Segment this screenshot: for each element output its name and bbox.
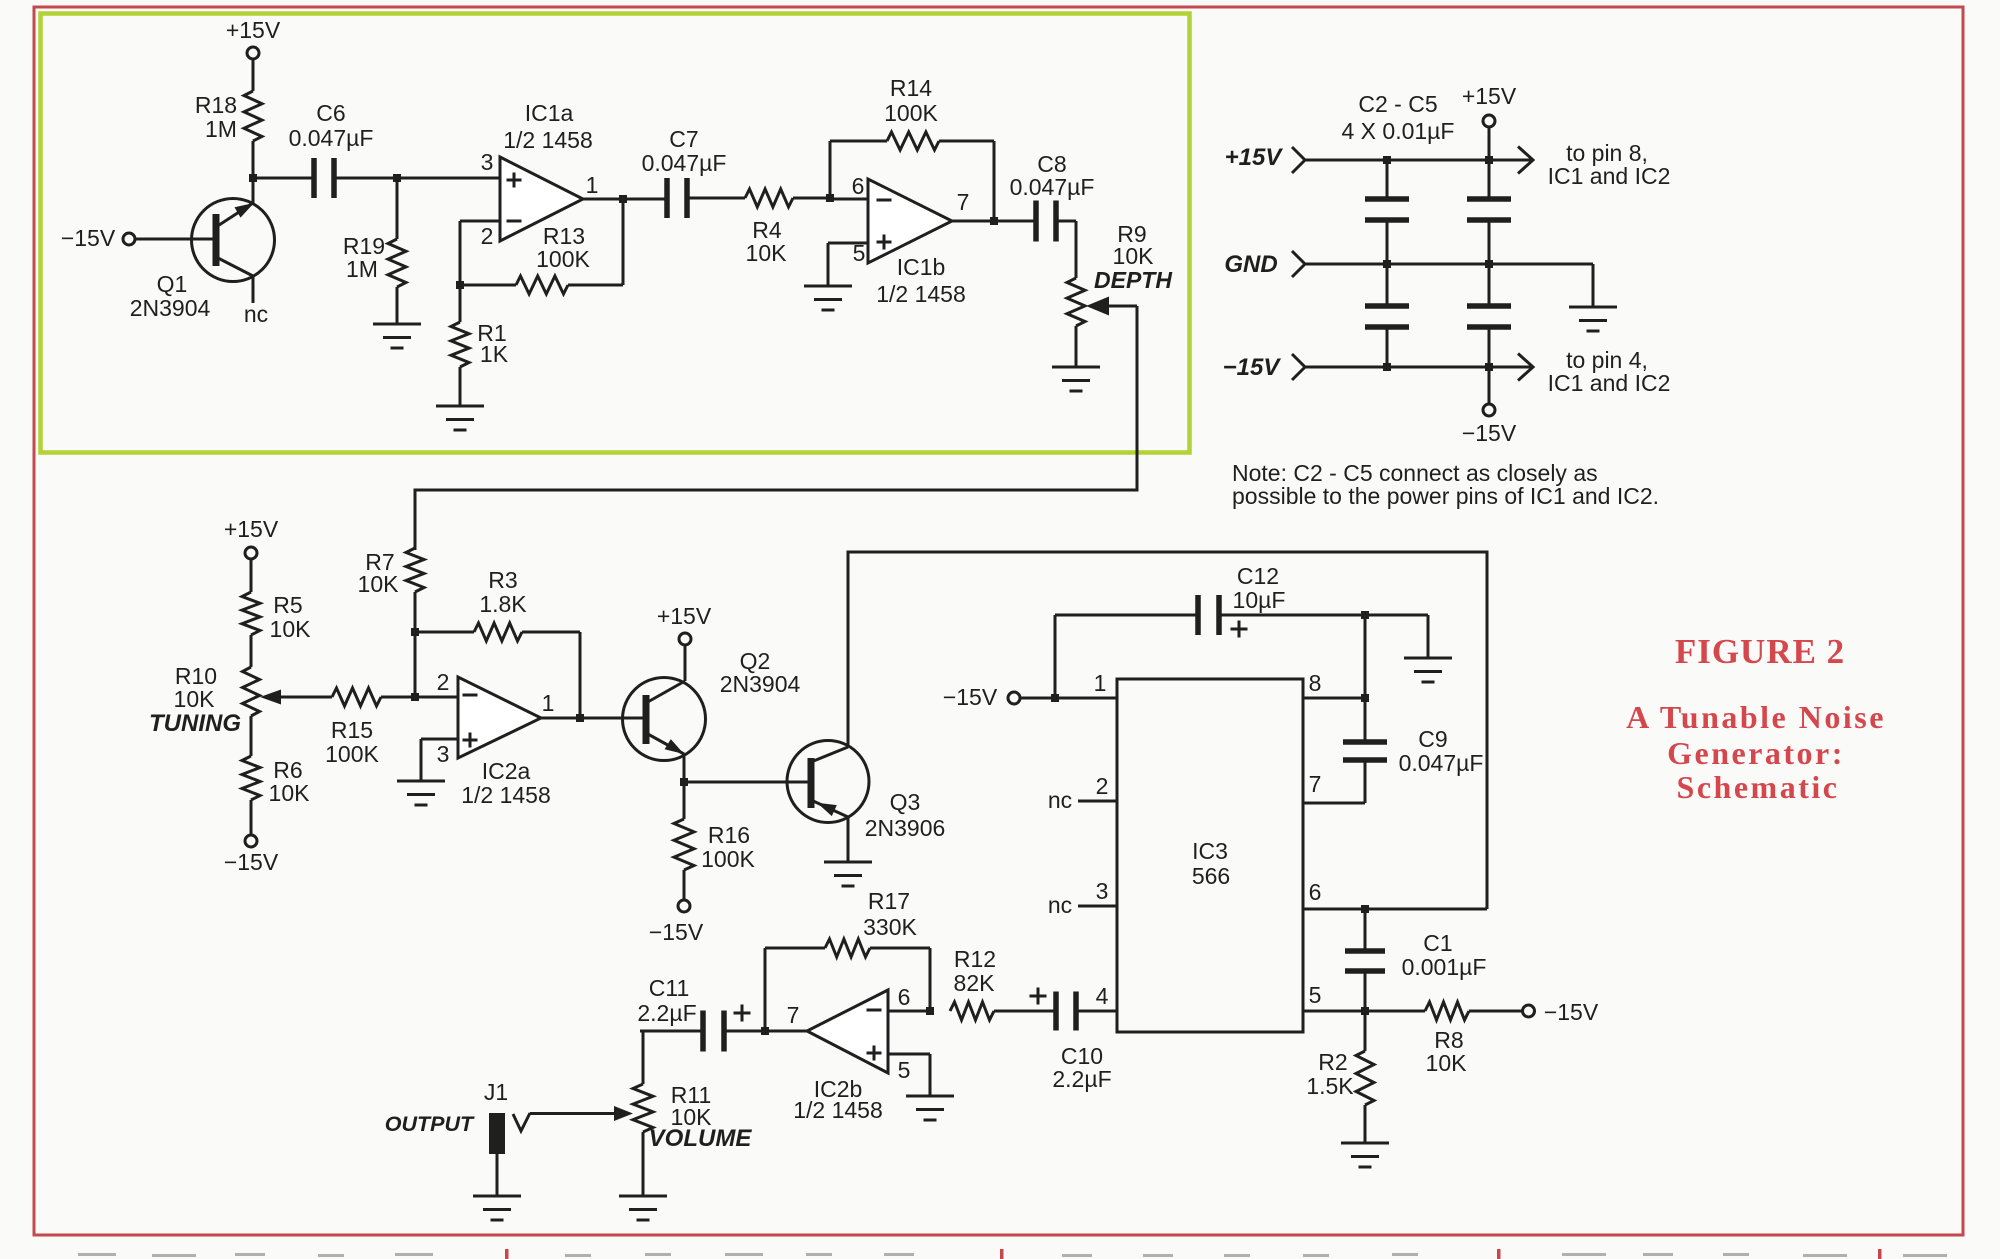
ground below IC2b pin5 [906, 1096, 954, 1120]
wire node J to Q3 base [684, 781, 811, 784]
transistor Q1 2N3904 [192, 178, 275, 282]
svg-text:−15V: −15V [1462, 420, 1517, 446]
svg-text:10K: 10K [174, 686, 216, 712]
svg-text:2.2µF: 2.2µF [637, 1000, 696, 1026]
svg-text:R3: R3 [488, 567, 517, 593]
svg-text:5: 5 [1309, 982, 1322, 1008]
transistor Q3 2N3906 [787, 741, 869, 823]
capacitor C10 [1030, 988, 1112, 1093]
label OUTPUT [385, 1112, 475, 1136]
resistor R15 [260, 688, 415, 767]
svg-text:0.001µF: 0.001µF [1402, 954, 1487, 980]
svg-text:10K: 10K [1426, 1050, 1468, 1076]
junction −15V rail / C5 [1485, 363, 1493, 371]
svg-text:IC3: IC3 [1192, 838, 1228, 864]
junction −15V rail / C3 [1383, 363, 1391, 371]
svg-text:C9: C9 [1418, 726, 1447, 752]
svg-text:2N3904: 2N3904 [720, 671, 801, 697]
wire R13 to IC1a output [622, 198, 625, 285]
svg-text:R17: R17 [868, 888, 910, 914]
svg-text:1/2 1458: 1/2 1458 [503, 127, 593, 153]
node D junction (IC1a output) [583, 195, 666, 203]
op-amp IC2a 1/2 1458 [437, 669, 555, 808]
resistor R5 [242, 592, 311, 642]
capacitor C9 [1343, 698, 1483, 803]
svg-text:R12: R12 [954, 946, 996, 972]
wire R10 to R6 [250, 716, 253, 756]
svg-text:7: 7 [957, 189, 970, 215]
svg-text:100K: 100K [884, 100, 938, 126]
resistor R14 (feedback) [830, 75, 994, 198]
wire node B to IC1a noninverting input [397, 177, 500, 180]
svg-text:C1: C1 [1423, 930, 1452, 956]
svg-text:10K: 10K [270, 616, 312, 642]
node J junction (Q2 emitter / R16 / Q3 base) [680, 778, 688, 786]
transistor Q2 2N3904 [623, 646, 706, 783]
svg-text:−15V: −15V [1223, 354, 1282, 381]
label Q1 [130, 271, 211, 321]
svg-text:0.047µF: 0.047µF [289, 125, 374, 151]
wire IC1b noninverting input to ground [828, 243, 868, 286]
svg-text:3: 3 [437, 741, 450, 767]
resistor R1 [451, 285, 509, 367]
svg-text:+15V: +15V [226, 17, 281, 43]
+15V rail input chevron [1225, 144, 1305, 173]
svg-text:10K: 10K [269, 780, 311, 806]
node E junction (R4 / R14 / IC1b pin6) [826, 194, 834, 202]
svg-text:R14: R14 [890, 75, 932, 101]
node K junction (pin1 / C12) [1051, 694, 1059, 702]
pin 3 nc [1048, 878, 1117, 918]
resistor R6 [242, 756, 310, 806]
ground below J1 [473, 1154, 521, 1220]
svg-text:10K: 10K [358, 571, 400, 597]
capacitor C4 (bypass +15V col 2) [1467, 160, 1511, 264]
wire node H to IC2a pin2 [415, 696, 458, 699]
svg-text:1M: 1M [205, 116, 237, 142]
GND rail ground drop [1569, 264, 1617, 331]
ground below R1 [436, 367, 484, 430]
highlight box around noise-source stage (green) [41, 14, 1190, 453]
svg-text:10K: 10K [746, 240, 788, 266]
node H junction (R15 / IC2a pin2) [411, 693, 419, 701]
capacitor C5 (bypass −15V col 2) [1467, 264, 1511, 367]
label C2 - C5 [1342, 91, 1455, 144]
svg-text:+15V: +15V [657, 603, 712, 629]
svg-text:7: 7 [1309, 771, 1322, 797]
resistor R16 [674, 782, 756, 872]
svg-text:FIGURE 2: FIGURE 2 [1675, 632, 1845, 671]
node G junction (R7 / R3) [411, 628, 419, 636]
wire R14 to IC1b output node [993, 141, 996, 221]
wire IC1a inverting input loop [460, 221, 500, 285]
label to pin 4 IC1 and IC2 [1548, 347, 1671, 396]
ground below R2 [1341, 1105, 1389, 1167]
input terminal −15V (IC3 pin1) [943, 684, 1117, 710]
pin 6 wire [1303, 879, 1487, 909]
R11 wiper arrow [530, 1106, 633, 1121]
IC3 566 [1117, 679, 1303, 1032]
svg-text:+15V: +15V [1462, 83, 1517, 109]
svg-text:1: 1 [1094, 670, 1107, 696]
svg-text:R5: R5 [273, 592, 302, 618]
svg-text:6: 6 [898, 984, 911, 1010]
svg-text:8: 8 [1309, 670, 1322, 696]
svg-text:nc: nc [244, 301, 268, 327]
svg-text:J1: J1 [484, 1079, 508, 1105]
svg-text:+15V: +15V [224, 516, 279, 542]
capacitor C2 (bypass +15V col 1) [1365, 160, 1409, 264]
power terminal +15V (top of R18) [226, 17, 281, 91]
svg-text:4: 4 [1096, 983, 1109, 1009]
−15V rail input chevron [1223, 354, 1305, 381]
svg-text:7: 7 [787, 1002, 800, 1028]
svg-text:−15V: −15V [61, 225, 116, 251]
capacitor C3 (bypass −15V col 1) [1365, 264, 1409, 367]
svg-text:nc: nc [1048, 787, 1072, 813]
pin 4 wire [1076, 983, 1117, 1011]
svg-text:possible to the power pins of: possible to the power pins of IC1 and IC… [1232, 483, 1659, 509]
node A junction (Q1 emitter / C6) [249, 174, 257, 182]
wire R5 to R10 [250, 635, 253, 667]
svg-text:2N3906: 2N3906 [865, 815, 946, 841]
node C junction (R13 / R1 / IC1a pin2) [456, 281, 464, 289]
svg-text:100K: 100K [701, 846, 755, 872]
wire IC2a noninverting input to ground [421, 739, 458, 781]
svg-text:1K: 1K [480, 341, 509, 367]
svg-text:−15V: −15V [943, 684, 998, 710]
capacitor C12 [1055, 563, 1365, 698]
node O junction (pin5 / C1 / R2 / R8) [1361, 1007, 1369, 1015]
ground below R11 [619, 1132, 667, 1220]
capacitor C8 [1010, 151, 1095, 242]
svg-text:C7: C7 [669, 126, 698, 152]
svg-text:2: 2 [481, 223, 494, 249]
svg-text:1/2 1458: 1/2 1458 [876, 281, 966, 307]
svg-text:R2: R2 [1318, 1049, 1347, 1075]
junction GND rail / C4C5 [1485, 260, 1493, 268]
svg-text:1: 1 [586, 172, 599, 198]
power terminal +15V (top of R5) [224, 516, 279, 592]
svg-text:6: 6 [852, 173, 865, 199]
svg-text:−15V: −15V [649, 919, 704, 945]
svg-text:TUNING: TUNING [149, 710, 241, 737]
resistor R4 [745, 189, 830, 266]
capacitor C11 [637, 975, 750, 1052]
Q1 collector lead (nc) [216, 257, 268, 327]
svg-text:0.047µF: 0.047µF [1399, 750, 1484, 776]
svg-text:IC1a: IC1a [525, 100, 574, 126]
pin 2 nc [1048, 773, 1117, 813]
svg-text:DEPTH: DEPTH [1094, 267, 1172, 293]
svg-text:82K: 82K [954, 970, 996, 996]
svg-text:OUTPUT: OUTPUT [385, 1112, 475, 1136]
wire C8 to potentiometer R9 [1075, 221, 1078, 278]
svg-text:R18: R18 [195, 92, 237, 118]
svg-text:1/2 1458: 1/2 1458 [793, 1097, 883, 1123]
wire Q3 collector loop to IC3 pin6 [848, 552, 1487, 909]
svg-text:5: 5 [898, 1057, 911, 1083]
resistor R7 [358, 548, 424, 597]
op-amp IC1a 1/2 1458 [481, 100, 599, 249]
wire R7 to node G [414, 592, 417, 632]
resistor R2 [1306, 1011, 1374, 1105]
node B junction (C6 / R19 / IC1a pin3) [393, 174, 401, 182]
svg-text:100K: 100K [325, 741, 379, 767]
svg-text:10K: 10K [1113, 243, 1155, 269]
ground below R9 [1052, 326, 1100, 391]
wire node G down to IC2a inverting input [414, 632, 417, 697]
op-amp IC1b 1/2 1458 [852, 173, 970, 307]
svg-text:1/2 1458: 1/2 1458 [461, 782, 551, 808]
resistor R3 [415, 567, 580, 641]
potentiometer R10 10K TUNING [149, 663, 260, 737]
svg-text:Generator:: Generator: [1667, 735, 1845, 771]
power terminal −15V (bottom of R16) [649, 870, 704, 945]
svg-text:1: 1 [542, 690, 555, 716]
svg-text:Q1: Q1 [157, 271, 188, 297]
svg-text:1M: 1M [346, 256, 378, 282]
resistor R12 [950, 946, 1056, 1020]
node L junction (C12 / ground stub / pin8 drop) [1361, 611, 1369, 619]
cut-off text remnants at page bottom [78, 1249, 1947, 1259]
wire R9 wiper to R7 (modulation feed) [415, 306, 1137, 550]
node N junction (pin6 / C1) [1361, 905, 1369, 913]
junction +15V rail / C2 [1383, 156, 1391, 164]
pin 8 wire [1303, 670, 1365, 698]
svg-text:3: 3 [481, 149, 494, 175]
power terminal +15V (Q2 collector) [657, 603, 712, 645]
svg-text:Schematic: Schematic [1677, 769, 1840, 805]
svg-text:A Tunable Noise: A Tunable Noise [1626, 699, 1886, 735]
node I junction (IC2a output / R3 / Q2 base) [541, 714, 646, 722]
+15V rail arrow to pin 8 [1518, 147, 1533, 174]
svg-text:1.8K: 1.8K [479, 591, 527, 617]
note text [1232, 460, 1659, 509]
svg-text:IC1 and IC2: IC1 and IC2 [1548, 370, 1671, 396]
svg-text:330K: 330K [863, 914, 917, 940]
svg-text:VOLUME: VOLUME [649, 1125, 753, 1152]
svg-text:566: 566 [1192, 863, 1230, 889]
resistor R13 (feedback) [460, 223, 623, 294]
svg-text:6: 6 [1309, 879, 1322, 905]
svg-text:4 X 0.01µF: 4 X 0.01µF [1342, 118, 1455, 144]
svg-text:2: 2 [437, 669, 450, 695]
svg-text:C6: C6 [316, 100, 345, 126]
svg-text:+15V: +15V [1225, 144, 1284, 171]
potentiometer R11 10K VOLUME [633, 1082, 752, 1152]
wire node L down to pin8 [1364, 615, 1367, 698]
figure caption [1626, 632, 1886, 805]
svg-text:GND: GND [1224, 251, 1277, 278]
svg-text:R16: R16 [708, 822, 750, 848]
power terminal −15V (bottom of bypass network) [1462, 367, 1517, 446]
node F junction (IC1b output / C8) [952, 217, 1036, 225]
wire R3 to IC2a output [579, 632, 582, 718]
svg-text:R15: R15 [331, 717, 373, 743]
op-amp IC2b 1/2 1458 [787, 984, 911, 1123]
svg-text:100K: 100K [536, 246, 590, 272]
svg-text:1.5K: 1.5K [1306, 1073, 1354, 1099]
svg-text:2: 2 [1096, 773, 1109, 799]
svg-text:0.047µF: 0.047µF [1010, 174, 1095, 200]
svg-text:−15V: −15V [1544, 999, 1599, 1025]
svg-text:IC1 and IC2: IC1 and IC2 [1548, 163, 1671, 189]
−15V rail wire [1305, 366, 1533, 369]
power terminal +15V (top of bypass network) [1462, 83, 1517, 160]
resistor R17 (feedback) [765, 888, 930, 1031]
power terminal −15V (bottom of R6) [224, 800, 279, 875]
ground below IC1b pin5 [804, 286, 852, 310]
svg-text:3: 3 [1096, 878, 1109, 904]
resistor R18 [195, 91, 262, 142]
pin 5 wire [1303, 982, 1425, 1011]
svg-text:C11: C11 [649, 975, 690, 1001]
junction GND rail / C2C3 [1383, 260, 1391, 268]
ground below IC2a pin3 [397, 781, 445, 805]
ground stub right of C12 [1365, 615, 1452, 682]
svg-text:C12: C12 [1237, 563, 1279, 589]
svg-text:−15V: −15V [224, 849, 279, 875]
−15V rail arrow to pin 4 [1518, 354, 1533, 381]
svg-text:2.2µF: 2.2µF [1052, 1066, 1111, 1092]
wire node P to IC2b inverting input [888, 1010, 930, 1013]
R9 wiper arrow [1086, 297, 1137, 316]
svg-text:0.047µF: 0.047µF [642, 150, 727, 176]
svg-text:C2 - C5: C2 - C5 [1358, 91, 1437, 117]
svg-text:IC2a: IC2a [482, 758, 531, 784]
svg-text:nc: nc [1048, 892, 1072, 918]
svg-text:2N3904: 2N3904 [130, 295, 211, 321]
junction +15V rail / C4 [1485, 156, 1493, 164]
ground below R19 [373, 287, 421, 348]
capacitor C1 [1345, 909, 1486, 1011]
wire node E to IC1b inverting input [830, 198, 868, 201]
label to pin 8 IC1 and IC2 [1548, 140, 1671, 189]
jack J1 [484, 1079, 530, 1154]
capacitor C7 [642, 126, 745, 218]
wire R18 bottom to node A [252, 141, 255, 178]
input terminal −15V (Q1 base) [61, 225, 216, 251]
GND rail wire [1305, 263, 1593, 266]
wire C11 down to R11 [642, 1031, 645, 1084]
capacitor C6 [253, 100, 397, 198]
node M junction (pin8 / C9) [1361, 694, 1369, 702]
svg-text:10µF: 10µF [1233, 587, 1286, 613]
svg-text:IC1b: IC1b [897, 254, 946, 280]
pin 1 label [1094, 670, 1107, 696]
label Q3 [865, 789, 946, 841]
resistor R19 [343, 178, 406, 287]
GND rail input chevron [1224, 251, 1305, 278]
output terminal −15V (R8) [1523, 999, 1599, 1025]
+15V rail wire [1305, 159, 1533, 162]
ground below Q3 emitter [824, 817, 872, 886]
wire IC2b noninverting input to ground [888, 1054, 930, 1096]
label Q2 [720, 648, 801, 697]
node Q junction (IC2b output / C11 / R17) [724, 1027, 807, 1035]
pin 7 wire [1303, 771, 1365, 803]
resistor R8 [1425, 1002, 1522, 1076]
potentiometer R9 10K DEPTH [1067, 221, 1172, 326]
node P junction (IC2b pin6 / R17 / R12) [926, 1007, 934, 1015]
svg-text:Q3: Q3 [890, 789, 921, 815]
